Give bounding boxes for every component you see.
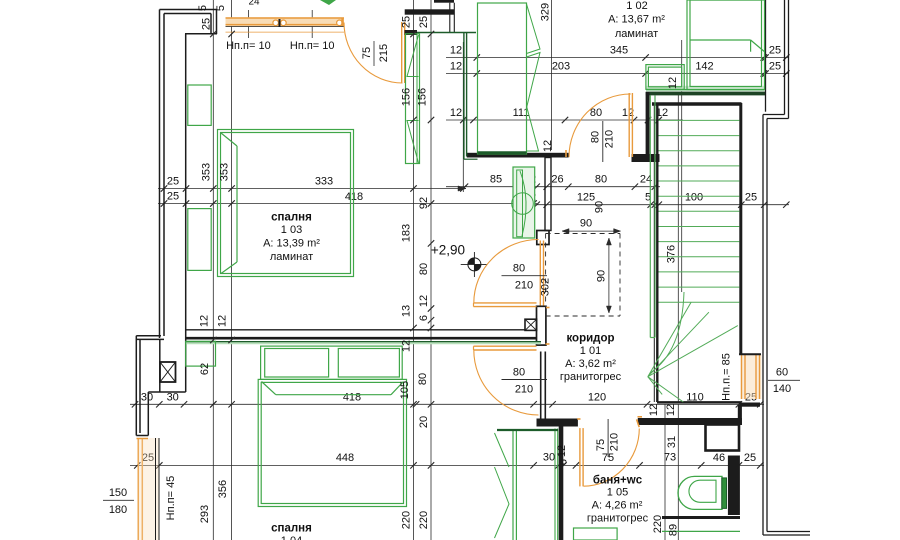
svg-text:220: 220 xyxy=(401,511,413,529)
furniture base line room102 xyxy=(646,89,765,91)
svg-text:80: 80 xyxy=(418,263,430,275)
window label 60/140 xyxy=(768,379,800,381)
room102 south wall xyxy=(646,86,764,92)
svg-text:46: 46 xyxy=(713,452,725,464)
dim line 333/418 xyxy=(158,188,466,190)
svg-text:80: 80 xyxy=(417,373,429,385)
svg-text:Нп.п.= 85: Нп.п.= 85 xyxy=(721,353,733,401)
svg-text:1 02: 1 02 xyxy=(626,0,647,12)
svg-text:80: 80 xyxy=(590,131,602,143)
stair railing xyxy=(649,96,651,338)
svg-text:25: 25 xyxy=(418,16,430,28)
svg-text:356: 356 xyxy=(217,480,229,498)
closet B corridor (111) xyxy=(478,3,527,154)
svg-text:25: 25 xyxy=(744,452,756,464)
svg-text:353: 353 xyxy=(219,163,231,181)
closet A bedroom103 (156/156) xyxy=(406,34,420,164)
svg-text:100: 100 xyxy=(685,192,703,204)
svg-text:90: 90 xyxy=(594,201,606,213)
svg-text:80: 80 xyxy=(590,107,602,119)
bathroom niche + pier + south wall xyxy=(706,425,740,451)
svg-text:25: 25 xyxy=(167,191,179,203)
bed room102 xyxy=(687,0,765,90)
door3 corridor-room102 80/210 xyxy=(628,93,630,157)
svg-text:25: 25 xyxy=(769,45,781,57)
svg-text:31: 31 xyxy=(666,436,678,448)
svg-text:80: 80 xyxy=(513,366,525,378)
svg-text:120: 120 xyxy=(588,391,606,403)
door1 label 80/210 xyxy=(502,275,548,277)
nightstands bedroom103 xyxy=(188,85,211,125)
svg-text:210: 210 xyxy=(609,433,621,451)
svg-text:1 05: 1 05 xyxy=(607,487,628,499)
door1 corridor-hall 80/210 xyxy=(474,302,537,304)
door2 bedroom104 80/210 xyxy=(474,345,537,347)
right wall 25 ticks xyxy=(762,54,768,60)
svg-text:баня+wc: баня+wc xyxy=(593,475,643,487)
svg-text:1 04: 1 04 xyxy=(281,535,302,540)
svg-text:345: 345 xyxy=(610,45,628,57)
stair walls xyxy=(656,103,658,402)
svg-text:448: 448 xyxy=(336,452,354,464)
svg-text:30: 30 xyxy=(167,391,179,403)
toilet xyxy=(678,476,722,509)
svg-text:203: 203 xyxy=(552,61,570,73)
door4 label 75/210 xyxy=(607,419,609,457)
svg-text:6: 6 xyxy=(418,315,430,321)
svg-text:180: 180 xyxy=(109,504,127,516)
svg-text:60: 60 xyxy=(776,367,788,379)
svg-text:142: 142 xyxy=(695,61,713,73)
svg-text:85: 85 xyxy=(490,174,502,186)
svg-text:A: 13,39 m²: A: 13,39 m² xyxy=(263,238,320,250)
window right 60/140 xyxy=(741,355,762,400)
svg-text:26: 26 xyxy=(551,174,563,186)
closet B left corner xyxy=(464,158,478,160)
svg-text:A: 3,62 m²: A: 3,62 m² xyxy=(565,358,616,370)
svg-text:12: 12 xyxy=(648,404,660,416)
dim lines 345/203/142/111 xyxy=(446,57,789,59)
door4 bathroom 75/210 xyxy=(579,428,581,486)
wall corridor west x=548 xyxy=(545,158,551,231)
shaft square with X left xyxy=(160,362,176,382)
svg-text:5: 5 xyxy=(197,5,209,11)
svg-text:12: 12 xyxy=(665,404,677,416)
desk room102 xyxy=(646,65,684,90)
wardrobe bedroom104 xyxy=(512,430,514,540)
svg-text:156: 156 xyxy=(417,88,429,106)
svg-text:25: 25 xyxy=(769,61,781,73)
svg-text:24: 24 xyxy=(248,0,260,8)
window top (Np.p=10) xyxy=(226,17,345,26)
svg-text:12: 12 xyxy=(667,77,679,89)
svg-text:12: 12 xyxy=(542,140,554,152)
svg-text:220: 220 xyxy=(418,511,430,529)
svg-text:12: 12 xyxy=(199,315,211,327)
door label 75/215 xyxy=(373,41,375,66)
svg-text:спалня: спалня xyxy=(271,212,312,224)
svg-text:90: 90 xyxy=(596,270,608,282)
bedroom104 top band + nightstand xyxy=(186,341,541,344)
dashed floor opening 90x90 xyxy=(546,233,620,235)
bed bedroom104 xyxy=(258,379,406,506)
svg-text:30: 30 xyxy=(543,452,555,464)
dim line 448/30/6/75/73/46/25 xyxy=(130,464,764,466)
svg-text:30: 30 xyxy=(141,391,153,403)
window left (150/180) xyxy=(137,438,139,540)
window label 150/180 xyxy=(103,499,134,501)
svg-text:89: 89 xyxy=(668,524,680,536)
svg-text:12: 12 xyxy=(556,445,568,457)
svg-text:210: 210 xyxy=(515,383,533,395)
door3 label 80/210 xyxy=(602,121,604,162)
bed bedroom103 xyxy=(218,130,354,277)
door top 75/215 xyxy=(401,22,403,83)
north wall piers xyxy=(405,9,454,14)
svg-text:1 03: 1 03 xyxy=(281,224,302,236)
left wall shaft jog xyxy=(136,335,161,337)
headboard bedroom104 xyxy=(261,346,403,379)
svg-text:62: 62 xyxy=(199,363,211,375)
svg-text:80: 80 xyxy=(595,174,607,186)
svg-text:156: 156 xyxy=(401,88,413,106)
svg-text:75: 75 xyxy=(595,439,607,451)
wall V1 bedroom104 east xyxy=(540,352,542,419)
stair walk line xyxy=(650,292,684,373)
svg-text:376: 376 xyxy=(666,245,678,263)
svg-text:210: 210 xyxy=(604,130,616,148)
svg-text:12: 12 xyxy=(418,295,430,307)
svg-text:140: 140 xyxy=(773,383,791,395)
svg-text:25: 25 xyxy=(745,192,757,204)
svg-text:418: 418 xyxy=(343,391,361,403)
svg-text:гранитогрес: гранитогрес xyxy=(587,513,649,525)
wall corridor north y=155 xyxy=(467,153,569,158)
svg-text:92: 92 xyxy=(418,197,430,209)
svg-text:гранитогрес: гранитогрес xyxy=(560,371,622,383)
left wall top xyxy=(160,9,217,11)
svg-text:210: 210 xyxy=(515,280,533,292)
svg-text:73: 73 xyxy=(664,451,676,463)
svg-text:75: 75 xyxy=(361,47,373,59)
svg-text:спалня: спалня xyxy=(271,523,312,535)
bathroom bottom furniture xyxy=(662,530,740,532)
svg-text:Нп.п= 10: Нп.п= 10 xyxy=(290,40,335,52)
svg-text:20: 20 xyxy=(418,416,430,428)
svg-text:5: 5 xyxy=(215,5,227,11)
svg-text:90: 90 xyxy=(580,218,592,230)
svg-text:25: 25 xyxy=(167,176,179,188)
svg-text:коридор: коридор xyxy=(566,333,614,345)
wall between bedrooms y=330 xyxy=(186,329,525,331)
svg-text:333: 333 xyxy=(315,176,333,188)
dimension construction lines xyxy=(212,0,214,540)
svg-text:Нп.п= 45: Нп.п= 45 xyxy=(165,476,177,521)
svg-text:150: 150 xyxy=(109,487,127,499)
door2 label 80/210 xyxy=(502,379,548,381)
svg-text:12: 12 xyxy=(450,107,462,119)
svg-text:215: 215 xyxy=(378,44,390,62)
svg-text:12: 12 xyxy=(217,315,229,327)
svg-text:183: 183 xyxy=(401,224,413,242)
svg-text:125: 125 xyxy=(577,192,595,204)
svg-text:302: 302 xyxy=(540,278,552,296)
svg-text:25: 25 xyxy=(201,18,213,30)
dim lines 85/26/80 + 125/100 xyxy=(446,186,660,188)
stair steps xyxy=(659,119,740,121)
svg-text:12: 12 xyxy=(450,45,462,57)
svg-text:353: 353 xyxy=(201,163,213,181)
svg-text:13: 13 xyxy=(401,305,413,317)
svg-text:+2,90: +2,90 xyxy=(431,243,465,258)
svg-text:25: 25 xyxy=(401,16,413,28)
svg-text:A: 13,67 m²: A: 13,67 m² xyxy=(608,14,665,26)
cabinet hall xyxy=(513,167,535,238)
svg-text:1 01: 1 01 xyxy=(580,345,601,357)
svg-text:12: 12 xyxy=(401,340,413,352)
svg-text:Нп.п= 10: Нп.п= 10 xyxy=(226,40,271,52)
stair winders xyxy=(648,326,738,377)
svg-text:80: 80 xyxy=(513,263,525,275)
svg-text:A: 4,26 m²: A: 4,26 m² xyxy=(592,500,643,512)
svg-text:293: 293 xyxy=(199,505,211,523)
svg-text:220: 220 xyxy=(652,515,664,533)
svg-text:329: 329 xyxy=(540,3,552,21)
svg-text:ламинат: ламинат xyxy=(270,251,313,263)
svg-text:ламинат: ламинат xyxy=(615,28,658,40)
bathroom north walls + V2 xyxy=(537,419,578,427)
door stub + shaft square middle xyxy=(537,306,546,345)
dim line 30/30/418/120/110/25 xyxy=(130,403,764,405)
svg-text:12: 12 xyxy=(450,61,462,73)
outer contour right xyxy=(765,0,767,112)
svg-text:105: 105 xyxy=(399,381,411,399)
dim 90/90 opening xyxy=(562,230,621,232)
